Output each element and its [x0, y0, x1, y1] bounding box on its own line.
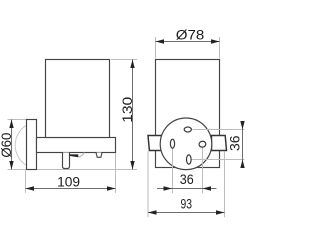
svg-text:130: 130 [120, 97, 135, 123]
svg-text:36: 36 [227, 136, 242, 152]
svg-text:36: 36 [180, 172, 194, 187]
svg-text:93: 93 [181, 196, 193, 211]
svg-text:Ø78: Ø78 [176, 27, 205, 42]
svg-text:Ø60: Ø60 [0, 133, 14, 158]
svg-text:109: 109 [57, 175, 80, 190]
